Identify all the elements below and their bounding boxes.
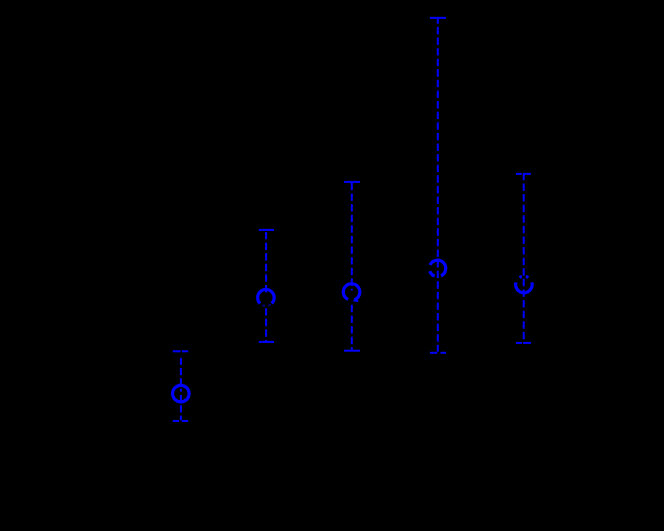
errorbar point 1 top cap: [173, 350, 181, 352]
errorbar point 4 marker circle: [430, 260, 446, 276]
errorbar point 2 marker circle: [258, 289, 275, 303]
errorbar point 2 whisker line: [265, 231, 267, 295]
errorbar point 3 top cap: [344, 181, 360, 183]
errorbar point 1 bottom cap: [173, 420, 179, 422]
errorbar point 5 marker circle: [516, 282, 533, 292]
errorbar point 2 bottom cap: [259, 341, 274, 343]
errorbar point 3 whisker line: [351, 183, 353, 291]
errorbar point 3 bottom cap: [344, 350, 360, 352]
errorbar point 4 bottom cap: [430, 352, 437, 354]
errorbar point 4 top cap: [430, 17, 446, 19]
errorbar point 5 whisker line: [523, 175, 525, 342]
errorbar point 1 whisker line: [180, 352, 182, 420]
errorbar point 3 marker circle: [343, 284, 360, 300]
errorbar point 5 bottom cap: [516, 342, 522, 344]
errorbar point 4 whisker line: [437, 19, 439, 352]
errorbar point 1 marker circle: [173, 385, 190, 402]
errorbar point 5 top cap: [516, 173, 522, 175]
errorbar point 2 top cap: [259, 229, 274, 231]
